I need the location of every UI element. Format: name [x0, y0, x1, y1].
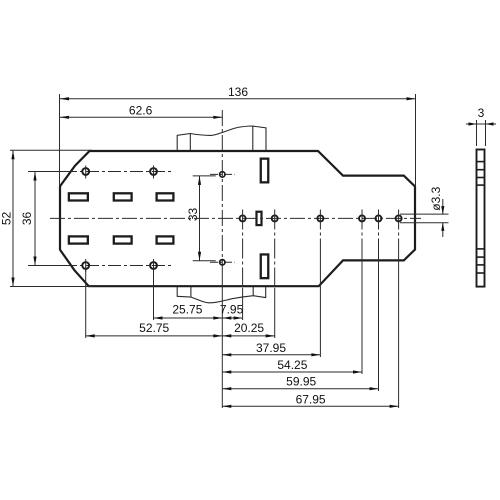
hole column extension line col1: [85, 267, 87, 338]
hole column extension line col2: [153, 267, 155, 320]
relay body phantom outline (top bump): [177, 126, 266, 150]
center row hole 2: [272, 215, 278, 221]
hole column extension line x362: [361, 210, 363, 256]
svg-text:52: 52: [0, 212, 14, 226]
hole column extension line x398.6: [398, 210, 400, 256]
vertical slot top: [261, 159, 269, 183]
dim 59.95: [222, 375, 378, 391]
main horizontal centerline: [50, 217, 421, 219]
dim line 52.75 / 20.25: [86, 321, 275, 338]
slot row1 col A: [69, 193, 88, 200]
svg-text:62.6: 62.6: [129, 103, 153, 117]
hole column extension line x274.7: [274, 210, 276, 289]
bottom hole row centerline: [64, 265, 172, 267]
svg-text:ø3.3: ø3.3: [429, 186, 443, 210]
dim 67.95: [222, 392, 398, 408]
corner hole top-2: [150, 166, 157, 179]
svg-text:52.75: 52.75: [139, 321, 169, 335]
dim 136: [60, 85, 416, 187]
hole column extension line x242.6: [242, 210, 244, 289]
middle column centerline: [221, 110, 223, 264]
slot row1 col B: [114, 193, 132, 200]
dim 52 (left overall height): [0, 150, 92, 286]
center row hole 5: [376, 215, 382, 221]
slot row1 col C: [157, 193, 174, 200]
top hole row centerline: [64, 171, 172, 173]
dim 37.95: [222, 341, 320, 357]
svg-text:136: 136: [228, 85, 248, 99]
svg-text:25.75: 25.75: [172, 302, 202, 316]
dim line 25.75 / 7.95: [154, 302, 244, 319]
dim 36 (hole rows): [20, 172, 74, 266]
svg-text:37.95: 37.95: [256, 341, 286, 355]
center row hole 3: [317, 215, 323, 221]
corner hole bottom-2: [150, 259, 157, 272]
svg-text:54.25: 54.25: [277, 358, 307, 372]
small middle slot: [257, 212, 262, 225]
slot row2 col A: [69, 236, 88, 243]
mid column bottom hole: [220, 260, 225, 265]
corner hole top-left: [82, 166, 89, 179]
slot row2 col B: [114, 236, 132, 243]
mid column top hole: [220, 172, 225, 177]
dim o3.3 (hole diameter): [400, 186, 449, 237]
center row hole 1: [240, 215, 246, 221]
svg-text:67.95: 67.95: [296, 392, 326, 406]
slot row2 col C: [157, 236, 174, 243]
svg-text:36: 36: [20, 212, 34, 226]
side view body: [476, 150, 485, 287]
hole column extension line x378.5: [378, 210, 380, 256]
plate outline (top view): [60, 151, 415, 286]
mid bottom hole cross line: [210, 261, 235, 263]
dim 54.25: [222, 358, 362, 374]
relay body phantom outline (bottom bump): [177, 287, 266, 303]
svg-text:20.25: 20.25: [234, 321, 264, 335]
svg-text:3: 3: [478, 106, 485, 120]
hole column extension line x320.4: [319, 210, 321, 256]
center row hole 6 (o3.3): [396, 215, 402, 221]
dim 62.6: [60, 103, 222, 119]
dim 33 (middle holes): [186, 176, 216, 261]
center row hole 4: [359, 215, 365, 221]
mid top hole cross line: [210, 173, 235, 175]
dim 3 (side view thickness): [466, 106, 496, 146]
svg-text:33: 33: [186, 208, 200, 222]
vertical slot bottom: [261, 254, 269, 278]
corner hole bottom-left: [82, 259, 89, 272]
svg-text:7.95: 7.95: [220, 302, 244, 316]
svg-text:59.95: 59.95: [286, 375, 316, 389]
